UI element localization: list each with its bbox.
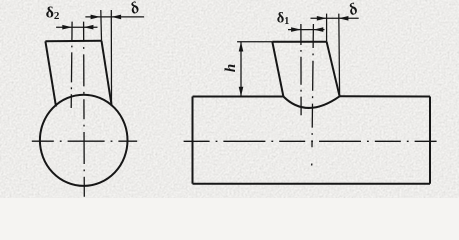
branch stub (side view) left edge xyxy=(272,42,283,97)
arrowhead h bottom xyxy=(239,87,244,97)
dimension line delta (left view) xyxy=(85,16,144,18)
extension line at stub top-right corner (left view) xyxy=(100,10,103,41)
arrowhead delta1 left xyxy=(291,27,301,32)
main pipe rectangle: right edge xyxy=(429,97,431,184)
extension line at stub top-right corner (side view) xyxy=(326,14,328,42)
branch stub (side view) top edge xyxy=(272,41,326,43)
branch stub (side view) right edge xyxy=(327,42,340,97)
arrowhead delta1 right xyxy=(314,27,324,32)
extension line at stub right-edge bottom (left view) xyxy=(110,10,112,105)
extension line at stub right-edge bottom (side view) xyxy=(338,14,341,97)
main pipe top edge, right part xyxy=(340,95,430,97)
arrowhead delta right (left view) xyxy=(111,15,121,20)
vertical pipe axis (left view) xyxy=(83,22,86,197)
arrowhead delta right (side view) xyxy=(339,16,349,21)
svg-text:h: h xyxy=(223,64,239,72)
dot of pipe axis below (side view) xyxy=(311,164,313,166)
dimension line delta2 xyxy=(56,26,97,28)
extension line for h at stub top level xyxy=(237,41,272,43)
branch stub (side view) curved bottom (set-through saddle) xyxy=(283,96,339,108)
branch stub (left view) right edge xyxy=(102,41,112,106)
arrowhead delta2 left xyxy=(62,25,72,30)
branch stub (left view) left edge xyxy=(45,41,56,106)
main pipe rectangle: bottom edge xyxy=(193,183,431,185)
horizontal centerline of pipe (side view) xyxy=(184,140,437,142)
horizontal centerline of circle xyxy=(32,140,137,142)
stub axis (side view, offset by delta1) xyxy=(300,24,302,115)
arrowhead h top xyxy=(239,42,244,52)
branch stub (left view) top edge xyxy=(45,40,101,43)
arrowhead delta left (side view) xyxy=(317,16,327,21)
main pipe circle xyxy=(40,95,128,186)
dimension line delta1 xyxy=(288,29,325,31)
dimension line delta (side view) xyxy=(311,17,359,19)
arrowhead delta2 right xyxy=(84,25,94,30)
vertical pipe axis (side view) xyxy=(312,24,313,147)
dimension line h xyxy=(240,42,242,97)
stub axis (left view, offset by delta2) xyxy=(70,22,73,108)
arrowhead delta left (left view) xyxy=(91,15,101,20)
main pipe rectangle: left edge xyxy=(192,97,194,184)
main pipe top edge, left part xyxy=(193,96,284,98)
